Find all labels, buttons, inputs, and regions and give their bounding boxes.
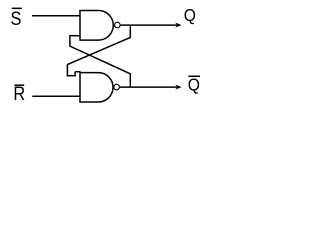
wire vertical segment below U1 lower input — [69, 35, 71, 46]
wire diagonal from U1 output tap down to U2 upper input — [67, 38, 130, 65]
input label R-bar — [13, 83, 25, 104]
wire U1 output to Q — [121, 24, 180, 26]
arrowhead at Q-bar — [175, 84, 182, 89]
nand-gate U1 output bubble — [115, 22, 121, 28]
svg-text:Q: Q — [188, 75, 200, 95]
svg-text:R: R — [13, 83, 25, 104]
wire R-bar to U2 lower input — [32, 95, 80, 97]
output label Q-bar — [188, 75, 200, 95]
nand-gate U1 body — [80, 11, 113, 41]
wire into U2 top-left corner — [75, 71, 80, 73]
arrowhead at Q — [175, 22, 182, 27]
wire vertical tap above U2 output — [129, 73, 131, 87]
wire vertical jog of notch up to U2 corner level — [74, 72, 76, 77]
input label S-bar — [11, 8, 22, 30]
wire feedback stub into U1 lower input — [70, 35, 81, 37]
wire S-bar to U1 upper input — [32, 15, 81, 17]
svg-text:Q: Q — [184, 5, 196, 25]
wire vertical segment down from diagonal end — [66, 64, 68, 76]
wire vertical tap below U1 output — [129, 25, 131, 38]
nand-gate U2 output bubble — [114, 84, 120, 90]
wire diagonal from U1 lower input down to U2 output tap — [70, 46, 131, 74]
svg-text:S: S — [11, 8, 22, 29]
wire horizontal jog of notch — [67, 75, 76, 77]
nand-gate U2 body — [80, 73, 113, 102]
wire U2 output to Q-bar — [120, 86, 180, 88]
